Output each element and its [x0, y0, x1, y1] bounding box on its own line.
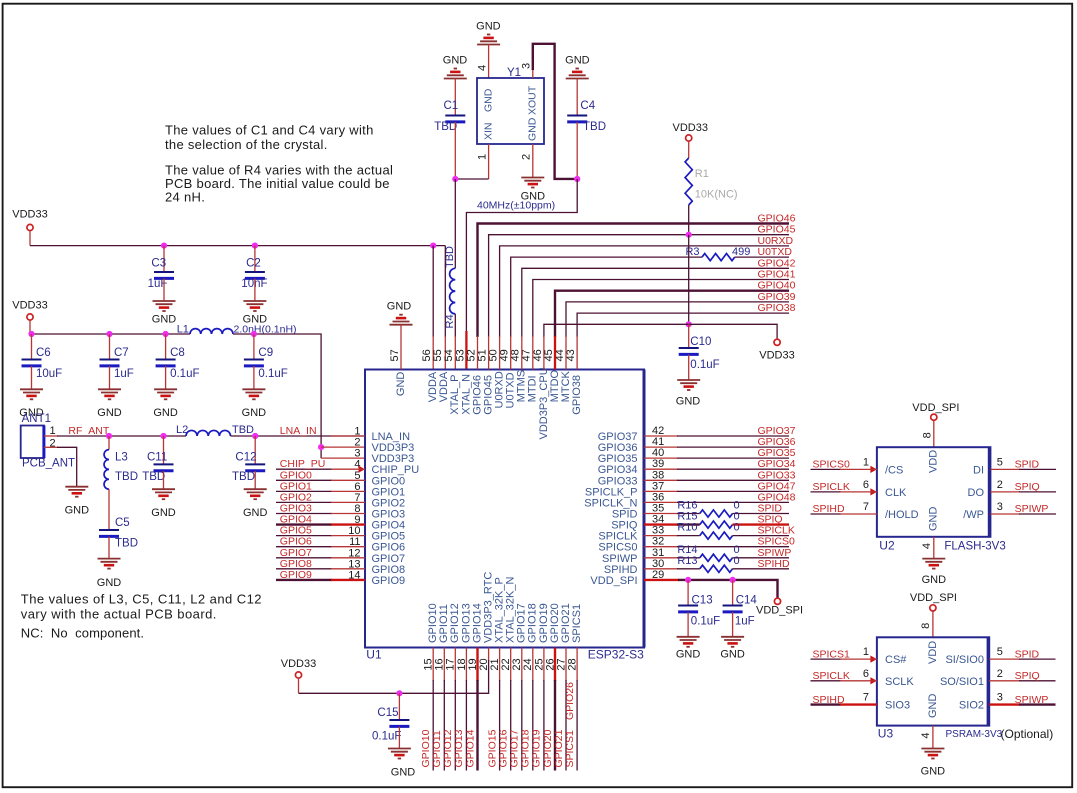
junction rail2 C7 [106, 331, 112, 337]
svg-text:GND: GND [153, 407, 178, 419]
svg-text:8: 8 [920, 623, 932, 629]
wire pin40 stub [644, 457, 678, 459]
wire XIN to R4 [454, 179, 456, 268]
svg-text:GPIO9: GPIO9 [280, 569, 312, 581]
svg-text:SCLK: SCLK [885, 676, 914, 688]
wire R1 to C10 [688, 235, 690, 325]
svg-text:TBD: TBD [444, 246, 456, 268]
svg-text:GPIO14: GPIO14 [464, 729, 476, 767]
wire L3 top [108, 436, 110, 450]
svg-text:1uF: 1uF [114, 368, 134, 380]
svg-text:TBD: TBD [232, 424, 254, 436]
wire net GPIO3 [276, 513, 365, 515]
svg-text:C6: C6 [36, 347, 51, 359]
wire C7 bottom [109, 366, 111, 389]
wire net GPIO6 [276, 546, 365, 548]
svg-text:1: 1 [50, 425, 56, 437]
inductor L3 [104, 450, 138, 490]
svg-text:C10: C10 [690, 336, 711, 348]
junction VDD3P3 pin2 [318, 444, 324, 450]
wire C15 bottom [398, 727, 400, 749]
wire pin31 stub [644, 557, 678, 559]
power VDD33 rail2 [12, 300, 47, 335]
svg-text:8: 8 [922, 432, 934, 438]
wire C11 bottom [163, 471, 165, 489]
svg-text:DO: DO [968, 487, 985, 499]
svg-text:RF_ANT: RF_ANT [68, 425, 109, 437]
capacitor C8 [156, 347, 200, 380]
svg-text:GPIO38: GPIO38 [758, 302, 796, 314]
wire C8 top [165, 334, 167, 359]
svg-text:5: 5 [997, 646, 1003, 658]
wire C15 top [398, 693, 400, 719]
wire pin20 to VDD33 [299, 660, 489, 693]
svg-text:0.1uF: 0.1uF [372, 731, 401, 743]
resistor R13 [677, 555, 739, 573]
junction rail2 C6 [28, 331, 34, 337]
wire pin48 stub [521, 336, 523, 370]
junction RF C11 [160, 433, 166, 439]
wire SPICLK to U3 [811, 680, 877, 682]
wire net GPIO41 [533, 280, 789, 338]
capacitor C13 [678, 595, 720, 628]
svg-text:GND: GND [927, 694, 939, 719]
wire pin49 stub [510, 336, 512, 370]
svg-text:GND: GND [921, 766, 946, 778]
wire pin22 stub [510, 648, 512, 771]
wire C3 bottom [163, 279, 165, 302]
svg-text:GND: GND [151, 507, 176, 519]
svg-text:GPIO39: GPIO39 [758, 291, 796, 303]
svg-text:VDD_SPI: VDD_SPI [590, 575, 637, 587]
svg-text:U1: U1 [366, 648, 382, 662]
wire pin29 stub [644, 579, 679, 581]
wire pin3 VDD3P3 [321, 457, 365, 459]
svg-text:GND: GND [922, 574, 947, 586]
power VDD33 rail1 [12, 209, 47, 246]
wire pin25 stub [543, 648, 545, 771]
svg-text:4: 4 [920, 732, 932, 738]
wire Y1 pin1 stub [488, 144, 490, 179]
wire pin33 stub [644, 535, 678, 537]
power VDD_SPI rail [756, 598, 803, 616]
capacitor C15 [372, 707, 409, 743]
svg-text:GPIO40: GPIO40 [758, 280, 796, 292]
wire U2 pin4 [933, 537, 935, 559]
wire net GPIO34 [677, 468, 789, 470]
svg-text:GND: GND [928, 507, 940, 532]
wire net GPIO2 [276, 501, 365, 503]
wire SPIWP from U3 [989, 703, 1055, 705]
svg-text:GPIO38: GPIO38 [571, 375, 583, 415]
svg-text:40MHz(±10ppm): 40MHz(±10ppm) [477, 200, 555, 212]
svg-text:1: 1 [863, 456, 869, 468]
wire C4 bottom [576, 122, 578, 179]
wire pin38 stub [644, 479, 678, 481]
svg-text:U3: U3 [878, 727, 894, 741]
wire C1 bottom [454, 122, 456, 179]
wire C11 top [163, 436, 165, 464]
svg-text:GPIO45: GPIO45 [758, 224, 796, 236]
svg-text:C11: C11 [147, 452, 167, 464]
capacitor C14 [723, 595, 758, 628]
wire C12 top [254, 436, 256, 464]
wire U3 pin4 [932, 726, 934, 749]
wire pin21 stub [499, 648, 501, 771]
wire VDD_SPI rail [678, 580, 778, 598]
resistor R16 [677, 500, 739, 518]
svg-text:VDD33: VDD33 [759, 350, 794, 362]
crystal Y1 [477, 63, 544, 160]
note about C1 C4 [165, 123, 374, 153]
wire R4 to pin54 [454, 314, 456, 337]
wire pin16 stub [443, 648, 445, 771]
wire RF row left [57, 435, 186, 437]
svg-text:43: 43 [565, 349, 577, 361]
svg-text:57: 57 [389, 349, 401, 361]
svg-text:499: 499 [732, 246, 750, 258]
ground below C7 [97, 389, 122, 419]
svg-text:3: 3 [997, 692, 1003, 704]
wire XIN net [455, 178, 488, 180]
wire SPICLK right [733, 535, 790, 537]
junction rail1 pin56 [430, 243, 436, 249]
inductor L1 [177, 324, 233, 336]
wire L3 to C5 [108, 489, 110, 529]
svg-text:0.1uF: 0.1uF [258, 368, 287, 380]
svg-text:10K(NC): 10K(NC) [695, 189, 738, 201]
wire C6 top [31, 334, 33, 359]
svg-text:TBD: TBD [583, 121, 606, 133]
wire C7 top [109, 334, 111, 359]
svg-text:GND: GND [97, 407, 122, 419]
wire R1 bottom [688, 205, 690, 235]
svg-text:SPICS1: SPICS1 [564, 730, 576, 768]
svg-text:GND: GND [242, 407, 267, 419]
svg-text:0.1uF: 0.1uF [690, 359, 719, 371]
wire net GPIO37 [677, 435, 789, 437]
wire VDD33 rail2 left [30, 333, 190, 335]
wire pin18 stub [465, 648, 467, 771]
svg-text:SPIHD: SPIHD [758, 558, 791, 570]
wire pin51 stub [488, 336, 490, 370]
svg-text:C5: C5 [115, 517, 130, 529]
capacitor C10 [679, 336, 720, 371]
wire pin47 stub [532, 336, 534, 370]
input arrow U2 pin1 [870, 466, 877, 473]
junction C10 [686, 321, 692, 327]
wire net GPIO42 [522, 268, 789, 337]
svg-text:1uF: 1uF [735, 616, 755, 628]
svg-text:SIO2: SIO2 [959, 700, 984, 712]
svg-text:SPICS0: SPICS0 [813, 459, 851, 471]
svg-text:the selection of the crystal.: the selection of the crystal. [165, 137, 328, 152]
svg-text:XOUT: XOUT [527, 85, 539, 115]
ground below C11 [151, 489, 176, 519]
capacitor C12 [232, 452, 265, 484]
wire net CHIP_PU [276, 468, 365, 470]
wire C5 bottom [108, 537, 110, 559]
svg-text:GPIO41: GPIO41 [758, 269, 796, 281]
junction RF C12 [252, 433, 258, 439]
svg-text:VDD_SPI: VDD_SPI [910, 592, 957, 604]
svg-text:5: 5 [997, 456, 1003, 468]
svg-text:C1: C1 [444, 100, 459, 112]
junction C14 [730, 577, 736, 583]
wire SPIWP from U2 [990, 513, 1056, 515]
wire C6 bottom [31, 366, 33, 389]
svg-text:PSRAM-3V3: PSRAM-3V3 [946, 729, 1003, 740]
svg-text:SPICS1: SPICS1 [813, 648, 851, 660]
wire C9 bottom [253, 366, 255, 389]
capacitor C4 [567, 100, 606, 133]
wire rail1 to pin56 [432, 246, 434, 337]
wire SPIHD to U3 [811, 703, 877, 705]
note about R4 [165, 163, 393, 205]
svg-text:GPIO46: GPIO46 [758, 213, 796, 225]
capacitor C6 [22, 347, 63, 380]
wire pin31 to resistor [677, 557, 700, 559]
junction XOUT [574, 176, 580, 182]
capacitor C7 [100, 347, 134, 380]
wire C4 to ground [576, 79, 578, 116]
svg-text:0: 0 [734, 555, 740, 567]
svg-text:VDD33: VDD33 [673, 122, 708, 134]
svg-text:TBD: TBD [115, 538, 138, 550]
wire ANT1 pin2 to ground [57, 447, 77, 486]
wire Y1 pin2 stub [532, 144, 534, 178]
wire pin45 stub [554, 336, 556, 370]
ground above C4 [565, 55, 590, 79]
ground below C2 [243, 301, 268, 326]
svg-text:GPIO26: GPIO26 [564, 682, 576, 720]
ground above pin 57 [387, 301, 413, 325]
wire C3 top [163, 246, 165, 272]
wire pin33 to resistor [677, 535, 700, 537]
wire pin15 stub [432, 648, 434, 771]
wire net GPIO38 [577, 313, 789, 337]
resistor R1 [685, 158, 737, 205]
wire pin55 stub [444, 336, 446, 370]
svg-text:C15: C15 [377, 707, 398, 719]
svg-text:TBD: TBD [232, 471, 255, 483]
wire pin42 stub [644, 435, 678, 437]
wire net GPIO5 [276, 535, 365, 537]
svg-text:GND: GND [676, 649, 701, 661]
wire SPIHD to U2 [811, 513, 877, 515]
wire pin35 stub [644, 513, 678, 515]
wire pin20 stub [488, 648, 490, 662]
svg-text:0: 0 [734, 522, 740, 534]
junction rail1 C2 [252, 243, 258, 249]
wire rail2 right [233, 334, 321, 458]
svg-text:0.1uF: 0.1uF [170, 368, 199, 380]
resistor R3 [685, 246, 750, 261]
junction C13 [685, 577, 691, 583]
flash U2 IC [863, 447, 1006, 552]
svg-text:L3: L3 [115, 452, 128, 464]
ground below U2 [922, 559, 947, 586]
svg-text:R4: R4 [444, 314, 456, 328]
ground above Y1 pin 4 [476, 21, 501, 45]
svg-text:GND: GND [65, 505, 90, 517]
svg-text:PCB_ANT: PCB_ANT [22, 458, 75, 470]
svg-text:GND: GND [395, 372, 407, 397]
ground below ANT1 [65, 487, 90, 517]
svg-text:SPICLK: SPICLK [813, 670, 850, 682]
wire pin34 to resistor [677, 523, 700, 525]
ground above C1 [443, 55, 468, 79]
wire pin54 stub [454, 336, 456, 370]
svg-text:7: 7 [863, 501, 869, 513]
svg-text:1: 1 [863, 646, 869, 658]
power VDD33 R1 [673, 122, 708, 158]
svg-text:6: 6 [863, 479, 869, 491]
wire pin43 stub [576, 336, 578, 370]
inductor L2 [176, 424, 231, 436]
ground below U3 [921, 749, 946, 778]
wire VDD33 rail1 [30, 245, 445, 247]
wire pin37 stub [644, 490, 678, 492]
input arrow U2 pin6 [870, 488, 877, 495]
wire net GPIO35 [677, 457, 789, 459]
wire pin39 stub [644, 468, 678, 470]
junction rail2 C8 [163, 331, 169, 337]
wire C8 bottom [165, 366, 167, 389]
svg-text:TBD: TBD [115, 471, 138, 483]
wire pin35 to resistor [677, 513, 700, 515]
capacitor C11 [142, 452, 173, 484]
wire C12 bottom [254, 471, 256, 489]
resistor R15 [677, 511, 739, 529]
svg-text:GND: GND [391, 767, 416, 779]
wire pin56 stub [432, 336, 434, 370]
svg-text:GND: GND [152, 314, 177, 326]
svg-text:C3: C3 [151, 258, 166, 270]
svg-text:2: 2 [997, 668, 1003, 680]
svg-text:VDD: VDD [928, 450, 940, 473]
svg-text:U0RXD: U0RXD [758, 235, 794, 247]
svg-text:3: 3 [997, 501, 1003, 513]
ground below C12 [243, 489, 268, 519]
svg-text:1: 1 [477, 154, 489, 160]
wire net GPIO47 [677, 490, 789, 492]
wire net GPIO8 [276, 568, 365, 570]
svg-text:VDD_SPI: VDD_SPI [912, 402, 959, 414]
input arrow U3 pin1 [870, 656, 877, 663]
wire SPID right [733, 513, 790, 515]
wire net GPIO1 [276, 490, 365, 492]
svg-text:GND: GND [476, 21, 501, 33]
svg-text:SPICS1: SPICS1 [571, 604, 583, 643]
wire C2 top [254, 246, 256, 272]
ground below C14 [720, 637, 745, 661]
wire pin26 stub [554, 648, 556, 771]
wire SPICS1 to U3 [811, 658, 877, 660]
wire pin34 stub [644, 523, 678, 525]
svg-text:CLK: CLK [885, 487, 907, 499]
wire SPIHD right [733, 568, 790, 570]
wire pin1 stub [331, 435, 365, 437]
junction rail2 C9 [251, 331, 257, 337]
connector ANT1 [21, 413, 75, 470]
svg-text:SPIQ: SPIQ [1015, 481, 1040, 493]
wire net GPIO45 [489, 235, 789, 337]
wire C10 bottom [688, 355, 690, 381]
wire C14 bottom [732, 612, 734, 637]
input arrow U3 pin6 [870, 677, 877, 684]
wire rail1 to pin55 [444, 246, 446, 337]
wire net U0TXD [511, 257, 789, 337]
svg-text:C9: C9 [258, 347, 273, 359]
svg-text:LNA_IN: LNA_IN [280, 425, 317, 437]
wire pin17 stub [454, 648, 456, 771]
wire SPICS0 to U2 [811, 468, 877, 470]
capacitor C1 [434, 100, 465, 133]
svg-text:R13: R13 [677, 555, 697, 567]
wire net GPIO7 [276, 557, 365, 559]
ground below C8 [153, 389, 178, 419]
svg-text:GND: GND [720, 649, 745, 661]
ground below C3 [152, 301, 177, 326]
wire pin30 to resistor [677, 568, 700, 570]
svg-text:VDD_SPI: VDD_SPI [756, 605, 803, 617]
wire C14 top [732, 580, 734, 605]
resistor R14 [677, 544, 739, 562]
ground below C10 [676, 380, 701, 408]
svg-text:C7: C7 [114, 347, 129, 359]
svg-text:GND: GND [565, 55, 590, 67]
wire pin28 stub [576, 648, 578, 771]
svg-text:C12: C12 [235, 452, 256, 464]
svg-text:SPID: SPID [1015, 648, 1040, 660]
wire net GPIO48 [677, 501, 789, 503]
svg-text:VDD33: VDD33 [12, 300, 47, 312]
capacitor C9 [244, 347, 288, 380]
wire net U0RXD [500, 246, 789, 337]
svg-text:ESP32-S3: ESP32-S3 [588, 648, 644, 662]
ground below Y1 pin 2 [521, 178, 546, 203]
power VDD_SPI U2 [912, 402, 959, 447]
svg-text:U2: U2 [879, 539, 895, 553]
svg-text:24 nH.: 24 nH. [165, 190, 205, 205]
wire C13 bottom [687, 612, 689, 637]
wire C9 top [253, 334, 255, 359]
svg-text:4: 4 [921, 543, 933, 549]
ground below C5 [97, 559, 122, 589]
svg-text:4: 4 [477, 65, 489, 71]
power VDD33 C15 [281, 658, 316, 693]
svg-text:SPID: SPID [1015, 459, 1040, 471]
wire net SPICS0 [677, 546, 789, 548]
svg-text:U0TXD: U0TXD [758, 246, 793, 258]
svg-text:GPIO42: GPIO42 [758, 257, 796, 269]
svg-text:CS#: CS# [885, 654, 907, 666]
power VDD33 C10 row [759, 339, 794, 361]
wire net GPIO0 [276, 479, 365, 481]
chip-pu input arrow [359, 466, 366, 473]
junction rail1 C3 [161, 243, 167, 249]
svg-text:DI: DI [973, 464, 984, 476]
junction C15 [396, 690, 402, 696]
svg-text:SI/SIO0: SI/SIO0 [945, 654, 984, 666]
svg-text:(Optional): (Optional) [1001, 727, 1054, 741]
svg-text:R10: R10 [677, 522, 697, 534]
wire net GPIO36 [677, 446, 789, 448]
svg-text:TBD: TBD [434, 121, 457, 133]
svg-text:GND: GND [527, 117, 539, 141]
svg-text:GND: GND [482, 88, 494, 112]
